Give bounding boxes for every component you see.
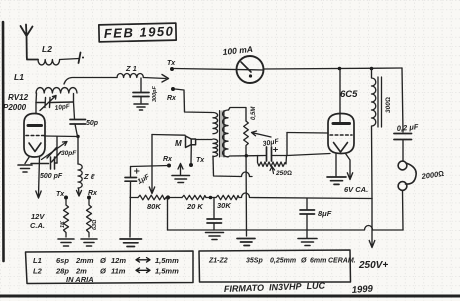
transformer core [220,111,225,158]
frame left vertical L1 to tube top [35,93,38,113]
ground below rail2 at cap [206,233,224,240]
legend arrow line2 [136,268,150,273]
heater lead arrow 12V [36,157,41,198]
svg-text:L1: L1 [14,72,24,82]
wiper arrow onto 80K [149,166,154,194]
node Rx bottom contact [87,196,91,200]
ground below Tx resistor [58,239,74,246]
capacitor 8uF stem [306,199,308,210]
wire secondary bottom to 30uF [228,156,266,158]
wire L1 to choke Z1 [64,78,117,85]
capacitor 8uF plates [300,210,315,214]
wire 1uF corner to Rx mid contact [131,166,170,167]
svg-text:IN ARIA: IN ARIA [66,275,94,284]
ground below 1uF [120,239,142,247]
wire Rx contact to transformer primary top [175,89,212,113]
legend box Z1 Z2 [199,250,351,282]
svg-text:RV12: RV12 [8,93,29,102]
junction node 20K-30K [209,196,213,200]
antenna [21,25,39,60]
transformer primary winding lower section [213,139,218,157]
inductor L2 [38,60,60,65]
switch wiper arrow down between Tx Rx [77,188,82,196]
capacitor 500pF leads and plates [31,157,57,169]
node Tx (top switch contact) [170,67,174,71]
node Tx bottom contact [64,196,68,200]
inductor L1 [36,88,77,93]
svg-text:Z 1: Z 1 [125,64,137,73]
transformer secondary winding [223,110,228,157]
junction node at 6C5 plate [338,67,342,71]
legend box L1 L2 [26,251,194,284]
wire to 6C5 grid [287,132,328,135]
tube 6C5 cathode V [334,143,348,153]
choke Z1 [117,73,143,77]
tube RV12P2000 grid dashes [26,135,44,137]
variable capacitor 30pF arrow [42,142,68,160]
wire tap corner to speaker [152,134,185,137]
svg-text:Rx: Rx [88,190,98,197]
capacitor 1uF plus sign [135,169,140,173]
wire vertical from tap corner down [151,135,153,167]
page bottom edge line [0,295,460,298]
page left edge line [2,22,5,261]
capacitor 0.2uF plates [394,134,412,140]
tube RV12P2000 cathode stem to ground [25,157,30,164]
node Tx mid contact [189,163,193,167]
svg-text:12V: 12V [31,212,45,221]
phones lower stem [402,190,405,230]
node Rx (top switch contact) [171,87,175,91]
variable capacitor 10pF plates [36,96,73,111]
capacitor 50p plates [70,120,86,125]
svg-text:M: M [175,139,182,148]
capacitor 0.2uF lower stem [402,140,404,161]
potentiometer 0.5M arrow [252,131,272,137]
potentiometer 0.5M zigzag [244,121,249,148]
transformer bottom leads [213,156,252,177]
wire to 6C5 cathode side [287,154,330,156]
ground below 300pF [134,104,148,110]
svg-text:0,5M: 0,5M [251,106,257,120]
svg-text:Rx: Rx [167,95,177,102]
speaker bottom lead to Tx contact [190,145,192,163]
ground below tube RV12 [18,165,32,172]
svg-text:C.A.: C.A. [30,221,45,230]
svg-text:63Ω: 63Ω [92,219,98,230]
switch wiper arrowhead [162,75,169,83]
variable capacitor 30pF plates [47,148,61,163]
resistor 20K zigzag [182,195,206,199]
open terminal tick [79,53,81,64]
ground below 6C5 [327,177,346,184]
ground below mid contacts [172,176,190,183]
supply 250V wire with arrow [369,199,375,248]
svg-text:250Ω: 250Ω [275,170,292,177]
wire 50p down to grid node [75,124,78,137]
resistor below Tx contact [64,200,69,238]
junction node 80K right [166,195,170,199]
capacitor 1uF plates [125,178,137,182]
capacitor 300pF stem [140,78,142,92]
svg-text:50p: 50p [86,120,99,127]
capacitor under 20K-30K plates [207,219,222,223]
svg-text:Tx: Tx [196,157,205,164]
phones jack circles 2000ohm [398,161,407,170]
svg-text:Z ℓ: Z ℓ [83,172,96,181]
svg-text:0,2 μF: 0,2 μF [396,122,419,133]
ground below Rx resistor [81,239,97,246]
ground below 8uF [298,239,317,246]
svg-text:300Ω: 300Ω [385,97,392,113]
resistor 30K zigzag [216,195,239,199]
wire top right corner down to 0.2uF [402,68,403,132]
wire Tx contact to meter [174,69,264,71]
choke 300ohm core lines [378,77,382,127]
wire 0.5M bottom long vertical to ground [245,148,248,236]
wire plate riser 6C5 [339,69,341,123]
meter 100mA circle [237,56,264,83]
grid wire tube to node [45,135,79,138]
capacitor under 20K-30K stem [213,198,215,219]
tube RV12P2000 anode bar [28,124,42,127]
svg-text:20 K: 20 K [186,202,203,211]
svg-text:Tx: Tx [56,191,65,198]
svg-text:6C5: 6C5 [340,89,358,100]
legend arrow line1 [136,258,150,263]
capacitor 300pF lower stem [140,97,142,104]
svg-text:Rx: Rx [163,156,173,163]
vertical 80K node to rail2 [167,198,169,231]
resistor 250ohm loop [258,156,287,167]
transformer primary winding upper section [213,113,218,134]
speaker lead to transformer [196,139,212,141]
svg-text:80K: 80K [147,202,161,211]
tube RV12P2000 envelope [24,114,45,158]
junction secondary bottom with vertical [245,154,248,157]
heater lead 6VCA arrow [346,154,353,180]
svg-text:FEB 1950: FEB 1950 [104,24,175,41]
resistor below Rx contact [87,200,92,238]
choke Z2 [78,164,82,188]
capacitor 1uF lower stem to ground [129,181,132,237]
meter needle [241,62,251,72]
choke 300ohm coil [372,69,376,199]
capacitor 30uF plates [267,147,272,161]
potentiometer 80K zigzag [138,195,166,200]
tube RV12P2000 cathode V [29,143,41,152]
svg-text:250V+: 250V+ [358,260,388,271]
transformer secondary top lead [229,108,247,122]
capacitor 300pF plates [133,93,149,97]
svg-text:30K: 30K [217,201,231,210]
junction node grid wire [76,135,79,138]
capacitor 1uF upper stem [130,167,132,178]
ground below 0.5M vertical [237,239,255,246]
speaker M cone [186,136,196,148]
capacitor 8uF lower stem [306,214,308,230]
vertical branch to 500pF [56,137,58,164]
svg-text:8μF: 8μF [318,209,332,218]
tube 6C5 anode bar [333,122,350,125]
ground stem below 8uF [306,230,308,238]
wire Z1 to switch wiper arrow [143,78,166,79]
svg-text:6V CA.: 6V CA. [344,185,368,194]
rail2 ground bus with hop [168,226,404,231]
title box FEB 1950 [99,23,176,42]
resistor 250ohm arrow [270,167,275,174]
svg-text:1K: 1K [60,220,66,228]
tube 6C5 cathode stem [335,154,337,177]
meter pivot dot [249,74,252,77]
svg-text:30pF: 30pF [61,150,77,157]
tube 6C5 envelope [328,114,354,154]
rail1 with hop over vertical [130,193,372,199]
capacitor lower stem [213,223,215,230]
node Rx mid contact [167,164,171,168]
capacitor 30uF plus sign [274,148,278,152]
ground arrow between mid contacts [178,164,183,175]
svg-text:500 pF: 500 pF [40,173,63,180]
top supply wire meter to right corner [264,68,403,69]
svg-text:Tx: Tx [167,60,176,67]
vertical link grid wire [286,133,288,156]
wire L2 to open terminal [60,59,79,60]
svg-text:1999: 1999 [351,283,374,295]
tube 6C5 grid dashes [330,134,352,136]
frame right vertical to 50p [74,94,75,120]
wire grid node down to Z2 [77,137,79,165]
svg-text:L2: L2 [42,44,52,54]
wire 30uF right to grid node [272,155,288,157]
phones arc [406,163,417,184]
junction node at choke top [370,67,374,71]
svg-text:300pF: 300pF [152,85,158,102]
svg-text:P2000: P2000 [3,103,27,112]
